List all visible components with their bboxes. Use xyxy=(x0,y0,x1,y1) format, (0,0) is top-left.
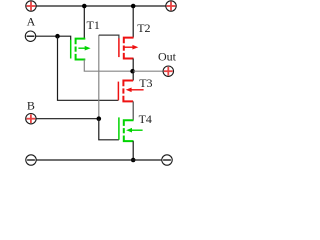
svg-text:Out: Out xyxy=(158,50,177,64)
transistor T1 xyxy=(71,39,91,60)
svg-text:T1: T1 xyxy=(87,18,100,32)
svg-text:T3: T3 xyxy=(139,76,152,90)
wire T3 source to T4 drain xyxy=(132,101,134,120)
terminal + top-left xyxy=(26,1,36,11)
wire A down to T3 gate xyxy=(58,36,119,100)
wire T2 source to out node xyxy=(132,59,134,72)
terminal - bottom-left xyxy=(26,155,36,165)
wire T1 drain to VDD xyxy=(83,6,85,39)
wire top rail VDD xyxy=(36,5,165,7)
wire bottom rail xyxy=(36,159,161,161)
terminal - input A xyxy=(25,31,35,41)
junction node B xyxy=(97,116,102,121)
svg-text:T2: T2 xyxy=(137,21,150,35)
transistor T3 xyxy=(118,81,143,102)
wire out node to Out terminal xyxy=(133,70,163,72)
transistor T4 xyxy=(119,117,143,141)
junction dot ground rail xyxy=(131,158,136,163)
wire B terminal to junction xyxy=(36,118,99,120)
svg-text:A: A xyxy=(27,15,36,29)
terminal + input B xyxy=(26,114,36,124)
wire A to T1 gate xyxy=(36,36,71,40)
transistor T2 xyxy=(119,38,138,59)
junction node Out xyxy=(130,69,135,74)
terminal + top-right xyxy=(166,1,176,11)
junction dot VDD T1 xyxy=(82,4,87,9)
wire B down to T4 gate xyxy=(99,119,119,140)
wire T4 source to ground rail xyxy=(132,141,134,160)
svg-text:B: B xyxy=(27,98,35,112)
wire across to T2 gate xyxy=(99,35,119,39)
terminal + Out xyxy=(163,66,173,76)
wire B up to T2 gate xyxy=(98,35,100,119)
wire T2 drain to VDD xyxy=(132,6,134,38)
wire out node down to T3 drain xyxy=(132,71,134,80)
terminal - bottom-right xyxy=(162,155,172,165)
svg-text:T4: T4 xyxy=(139,112,152,126)
junction dot VDD T2 xyxy=(131,4,136,9)
wire T1 source down to out net xyxy=(84,60,133,72)
junction node A xyxy=(55,34,60,39)
